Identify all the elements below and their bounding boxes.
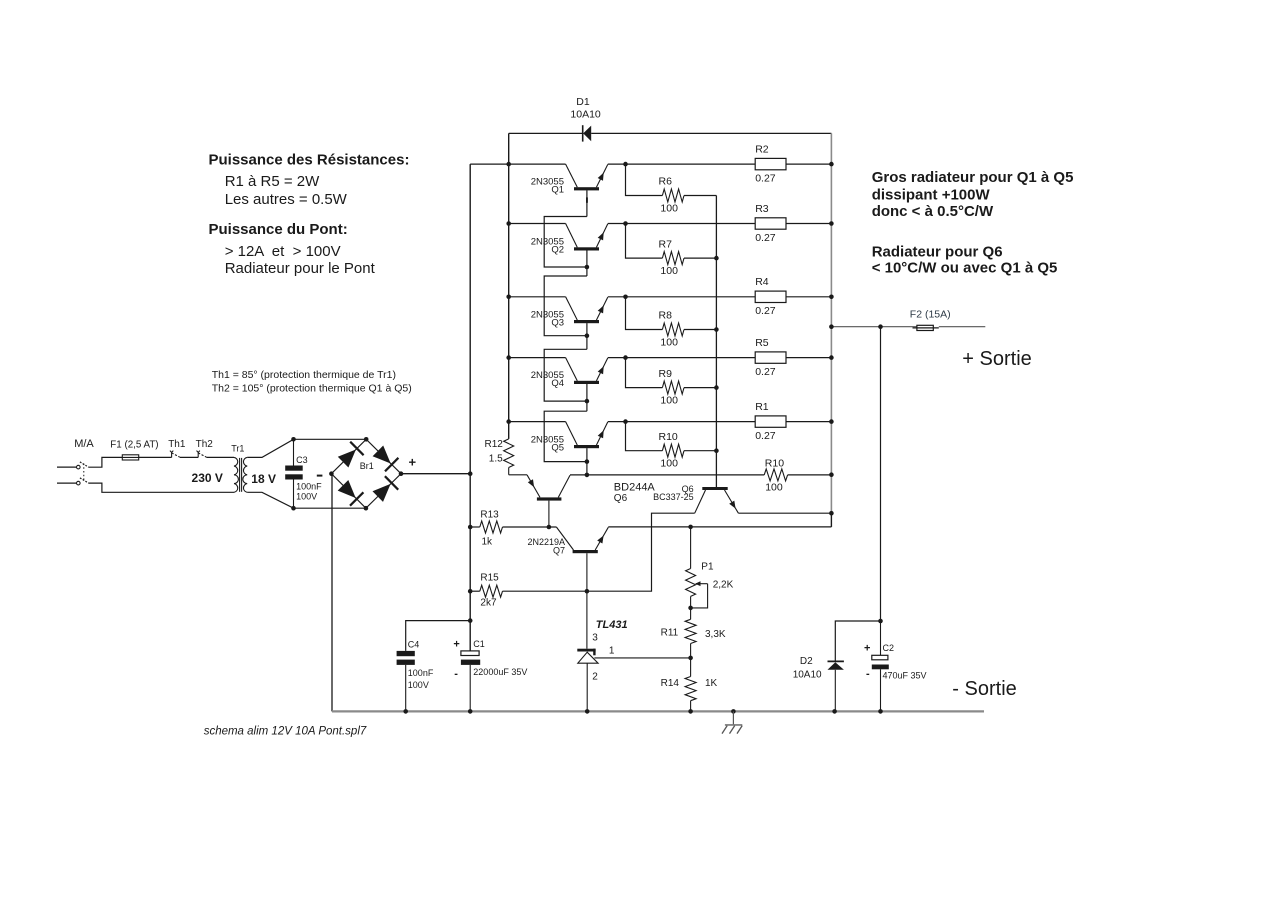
junction Q5 base / driver line <box>585 473 590 478</box>
wire: R15 to Q7 base <box>503 590 587 592</box>
junction rail / R14 <box>688 709 693 714</box>
resistor R10 100 <box>659 431 685 470</box>
capacitor C2 470uF 35V <box>864 621 927 711</box>
wire: Th1 to Th2 <box>180 456 198 458</box>
switch M/A <box>57 438 94 485</box>
junction P1 wiper tie <box>688 606 693 611</box>
svg-text:100: 100 <box>660 203 678 215</box>
wire: emitter row to resistor R5 <box>626 357 756 359</box>
svg-text:BC337-25: BC337-25 <box>653 492 694 502</box>
svg-text:100V: 100V <box>296 491 317 501</box>
wire: primary bottom return to switch <box>88 483 234 492</box>
label bridge minus <box>317 475 323 477</box>
junction output bus row Q1 <box>829 162 834 167</box>
junction C2 top tee <box>878 619 883 624</box>
svg-text:C3: C3 <box>296 455 308 465</box>
junction output bus / BC337 emitter <box>829 511 834 516</box>
resistor R9 100 <box>659 368 685 407</box>
thermal switch Th2 <box>196 439 214 458</box>
svg-text:-: - <box>866 668 870 680</box>
junction output line / C2 branch <box>878 324 883 329</box>
wire: Q4 emitter to base resistor R9 <box>626 358 663 388</box>
junction raw/R13 <box>468 525 473 530</box>
wire: bridge minus to 0V rail <box>331 474 333 712</box>
svg-text:18 V: 18 V <box>251 472 276 486</box>
wire: Q2 emitter to base resistor R7 <box>626 224 663 259</box>
ground <box>722 711 742 733</box>
svg-text:Les autres = 0.5W: Les autres = 0.5W <box>225 191 348 208</box>
wire: Q3 emitter to base resistor R8 <box>626 297 663 330</box>
svg-text:+: + <box>409 455 417 470</box>
resistor R15 2k7 <box>480 573 503 609</box>
svg-text:Q3: Q3 <box>551 317 564 328</box>
svg-text:schema alim 12V 10A Pont.spl7: schema alim 12V 10A Pont.spl7 <box>204 726 367 738</box>
fuse F1 <box>110 440 158 461</box>
wire: Q6 collector / Q5 base line to R10 <box>570 474 764 476</box>
resistor R8 100 <box>659 310 685 349</box>
resistor R1 0.27 <box>755 401 786 442</box>
svg-text:100nF: 100nF <box>408 668 434 678</box>
wire: Q4 base to Q5 base <box>544 384 587 462</box>
wire: raw tee to C4 <box>406 621 471 651</box>
junction sense bus at R10 <box>714 448 719 453</box>
junction collector bus y=297 <box>506 295 511 300</box>
junction Q2 emitter node <box>623 221 628 226</box>
junction Q7 base / R15 / BC337 <box>585 589 590 594</box>
junction Q4 emitter node <box>623 355 628 360</box>
resistor R10 100 (driver) <box>764 457 787 493</box>
svg-text:C4: C4 <box>408 640 420 650</box>
svg-text:1K: 1K <box>705 678 718 689</box>
junction bridge AC top <box>364 437 369 442</box>
junction Q5 base <box>585 459 590 464</box>
svg-text:R14: R14 <box>661 678 680 689</box>
svg-text:M/A: M/A <box>74 438 94 450</box>
wire: Q1 emitter to base resistor R6 <box>626 164 663 195</box>
svg-text:dissipant +100W: dissipant +100W <box>872 187 991 204</box>
junction raw/R15 <box>468 589 473 594</box>
resistor R12 1.5 <box>485 439 514 468</box>
svg-text:100: 100 <box>660 337 678 349</box>
svg-text:3,3K: 3,3K <box>705 629 726 640</box>
wire: secondary bottom to AC node <box>247 492 366 508</box>
svg-text:100: 100 <box>660 265 678 277</box>
svg-text:+: + <box>453 638 459 650</box>
wire: BC337 emitter to output bus <box>738 512 831 514</box>
wire: BC337 collector to Q7 base <box>587 513 695 591</box>
svg-text:+: + <box>864 642 870 654</box>
resistor R11 3,3K <box>661 619 726 643</box>
svg-text:R7: R7 <box>659 238 673 250</box>
svg-text:100: 100 <box>660 458 678 470</box>
wire: Q1 base to Q2 base <box>544 190 587 267</box>
wire: output bus (gray) <box>830 133 832 513</box>
svg-text:R4: R4 <box>755 276 769 288</box>
svg-text:P1: P1 <box>701 561 714 572</box>
svg-text:R12: R12 <box>485 439 504 450</box>
svg-text:2: 2 <box>592 672 598 683</box>
svg-text:Th2 = 105° (protection thermiq: Th2 = 105° (protection thermique Q1 à Q5… <box>212 382 412 394</box>
junction sense bus at R9 <box>714 385 719 390</box>
svg-text:22000uF 35V: 22000uF 35V <box>473 667 527 677</box>
wire: R10 to sense bus <box>684 450 716 452</box>
svg-text:470uF 35V: 470uF 35V <box>883 670 927 680</box>
wire: R8 to sense bus <box>684 329 716 331</box>
transistor Q6 BD244A <box>509 468 656 528</box>
wire: R3 to output bus <box>786 223 831 225</box>
wire: F2 to + Sortie <box>939 326 986 328</box>
svg-text:Radiateur pour le Pont: Radiateur pour le Pont <box>225 260 376 277</box>
svg-text:10A10: 10A10 <box>793 670 822 681</box>
wire: Q5 emitter to base resistor R10 <box>626 422 663 451</box>
junction C3 bottom <box>291 506 296 511</box>
svg-text:C1: C1 <box>473 639 485 649</box>
svg-text:Q4: Q4 <box>551 378 564 389</box>
wire: Q5 base to driver line <box>586 448 588 475</box>
svg-text:100: 100 <box>765 481 783 493</box>
svg-text:1.5: 1.5 <box>489 454 503 465</box>
junction rail / D2 <box>832 709 837 714</box>
svg-text:F2 (15A): F2 (15A) <box>910 308 951 320</box>
wire: R11 to R14 <box>690 644 692 677</box>
wire: emitter row to resistor R3 <box>626 223 756 225</box>
wire: 0V rail (gray) <box>332 710 984 712</box>
junction output bus row Q3 <box>829 295 834 300</box>
svg-text:Q1: Q1 <box>551 185 564 196</box>
wire: output bus to F2 <box>831 326 917 328</box>
svg-text:C2: C2 <box>883 643 895 653</box>
capacitor C3 <box>285 439 322 508</box>
svg-text:> 12A et > 100V: > 12A et > 100V <box>225 243 341 260</box>
svg-text:R13: R13 <box>480 510 499 521</box>
resistor R2 0.27 <box>755 144 786 185</box>
junction sense bus at R7 <box>714 256 719 261</box>
potentiometer P1 2,2K <box>686 527 734 619</box>
wire: Q2 base to Q3 base <box>544 250 587 335</box>
junction output bus row Q4 <box>829 355 834 360</box>
junction raw/C4 tee <box>468 618 473 623</box>
svg-text:D1: D1 <box>576 96 590 108</box>
wire: tee to D2 <box>835 621 880 661</box>
svg-text:100: 100 <box>660 395 678 407</box>
svg-text:2,2K: 2,2K <box>713 579 734 590</box>
wire: raw to R15 <box>470 590 480 592</box>
svg-text:Th2: Th2 <box>196 439 214 450</box>
junction rail / C4 <box>403 709 408 714</box>
svg-text:Q2: Q2 <box>551 245 564 256</box>
transistor Q3 2N3055 <box>509 297 626 329</box>
bridge rectifier Br1 <box>331 439 401 508</box>
svg-text:10A10: 10A10 <box>570 109 601 121</box>
wire: R13 to Q7 collector <box>503 526 557 528</box>
svg-text:Puissance des Résistances:: Puissance des Résistances: <box>209 152 410 169</box>
svg-text:Radiateur pour Q6: Radiateur pour Q6 <box>872 243 1003 260</box>
svg-text:R8: R8 <box>659 310 673 322</box>
svg-text:1: 1 <box>609 646 615 657</box>
transformer Tr1 <box>192 444 276 493</box>
wire: Q7 emitter row <box>608 526 831 528</box>
junction sense bus at R8 <box>714 327 719 332</box>
junction bridge minus node <box>329 471 334 476</box>
transistor Q7 2N2219A <box>527 527 608 649</box>
transistor Q1 2N3055 <box>509 164 626 196</box>
wire: Th2 to transformer primary <box>206 456 234 458</box>
junction output bus row Q2 <box>829 221 834 226</box>
junction output bus row Q5 <box>829 419 834 424</box>
wire: emitter row to resistor R2 <box>626 163 756 165</box>
junction collector bus y=224 <box>506 221 511 226</box>
diode D1 10A10 <box>570 96 831 142</box>
resistor R7 100 <box>659 238 685 277</box>
junction bridge plus node <box>399 471 404 476</box>
svg-text:Puissance du Pont:: Puissance du Pont: <box>209 221 348 238</box>
wire: output down to C2/D2 <box>880 327 882 621</box>
svg-text:R3: R3 <box>755 203 769 215</box>
resistor R13 1k <box>480 510 503 548</box>
svg-text:Th1: Th1 <box>168 439 186 450</box>
wire: F1 to Th1 <box>139 456 172 458</box>
svg-text:Br1: Br1 <box>360 461 374 471</box>
transistor Q4 2N3055 <box>509 358 626 390</box>
resistor R6 100 <box>659 176 685 215</box>
fuse F2 (15A) <box>910 308 951 330</box>
wire: phase from switch to fuse F1 <box>88 457 122 467</box>
wire: R7 to sense bus <box>684 257 716 259</box>
svg-text:R9: R9 <box>659 368 673 380</box>
wire: raw to R13 <box>470 526 480 528</box>
svg-text:F1 (2,5 AT): F1 (2,5 AT) <box>110 440 158 451</box>
wire: emitter row to resistor R4 <box>626 296 756 298</box>
note: Puissance des Resistances block <box>209 152 410 278</box>
junction output bus / R10 <box>829 472 834 477</box>
thermal switch Th1 <box>168 439 186 458</box>
junction rail / ground stub <box>731 709 736 714</box>
svg-text:R1 à R5 = 2W: R1 à R5 = 2W <box>225 173 320 190</box>
junction Q3 emitter node <box>623 295 628 300</box>
wire: R1 to output bus <box>786 421 831 423</box>
svg-text:0.27: 0.27 <box>755 232 776 244</box>
svg-text:BD244A: BD244A <box>614 481 656 493</box>
svg-text:R1: R1 <box>755 401 769 413</box>
svg-text:Q6: Q6 <box>614 493 628 504</box>
wire: secondary top to AC node <box>247 439 366 457</box>
junction collector bus y=164 <box>506 162 511 167</box>
regulator TL431 <box>577 619 627 711</box>
svg-text:3: 3 <box>592 633 598 644</box>
svg-text:D2: D2 <box>800 656 813 667</box>
wire: R10 to output bus <box>788 474 832 476</box>
transistor Q2 2N3055 <box>509 224 626 256</box>
wire: emitter row to resistor R1 <box>626 421 756 423</box>
resistor R4 0.27 <box>755 276 786 317</box>
junction Q4 base <box>585 399 590 404</box>
junction rail / TL431 anode <box>585 709 590 714</box>
svg-text:0.27: 0.27 <box>755 430 776 442</box>
svg-text:R10: R10 <box>659 431 678 443</box>
svg-text:- Sortie: - Sortie <box>952 678 1016 700</box>
svg-text:1k: 1k <box>482 537 494 548</box>
svg-text:Q5: Q5 <box>551 442 564 453</box>
junction bridge AC bottom <box>364 506 369 511</box>
junction C3 top <box>291 437 296 442</box>
resistor R3 0.27 <box>755 203 786 244</box>
svg-text:+ Sortie: + Sortie <box>962 348 1031 370</box>
svg-text:-: - <box>454 668 458 680</box>
svg-text:Th1 = 85° (protection thermiqu: Th1 = 85° (protection thermique de Tr1) <box>212 369 396 381</box>
wire: R5 to output bus <box>786 357 831 359</box>
svg-text:Gros radiateur pour Q1 à Q5: Gros radiateur pour Q1 à Q5 <box>872 169 1074 186</box>
junction raw/bridge plus <box>468 471 473 476</box>
wire: TL431 ref to divider <box>594 657 690 659</box>
svg-text:100nF: 100nF <box>296 481 322 491</box>
svg-text:0.27: 0.27 <box>755 366 776 378</box>
junction rail / C2 <box>878 709 883 714</box>
wire: Q3 base to Q4 base <box>544 323 587 401</box>
svg-text:R10: R10 <box>765 457 784 469</box>
svg-text:R11: R11 <box>661 628 679 639</box>
transistor Q5 2N3055 <box>509 422 626 454</box>
svg-text:R6: R6 <box>659 176 673 188</box>
junction Q3 base <box>585 333 590 338</box>
junction collector bus y=422 <box>506 419 511 424</box>
svg-text:0.27: 0.27 <box>755 305 776 317</box>
note: Gros radiateur block <box>872 169 1074 277</box>
junction rail / C1 <box>468 709 473 714</box>
transistor Q6 BC337-25 <box>653 484 738 513</box>
junction output bus / output line <box>829 324 834 329</box>
junction Q6 BD244A base <box>547 525 552 530</box>
wire: R9 to sense bus <box>684 387 716 389</box>
junction Q2 base <box>585 265 590 270</box>
junction Q7 emitter / P1 <box>688 525 693 530</box>
resistor R5 0.27 <box>755 337 786 378</box>
wire: bridge plus to raw node <box>401 473 470 475</box>
capacitor C1 22000uF 35V <box>453 638 527 711</box>
wire: R14 to rail <box>690 701 692 712</box>
wire: raw supply vertical <box>470 164 509 651</box>
svg-text:Tr1: Tr1 <box>231 444 244 454</box>
svg-text:2k7: 2k7 <box>480 598 497 609</box>
svg-text:R2: R2 <box>755 144 769 156</box>
svg-text:< 10°C/W ou avec Q1 à Q5: < 10°C/W ou avec Q1 à Q5 <box>872 259 1058 276</box>
svg-text:R5: R5 <box>755 337 769 349</box>
svg-text:R15: R15 <box>480 573 499 584</box>
wire: sense bus to Q6 BC337 base <box>715 196 717 488</box>
svg-text:0.27: 0.27 <box>755 172 776 184</box>
note: thermal protection note <box>212 369 412 395</box>
junction collector bus y=358 <box>506 355 511 360</box>
junction divider / TL431 ref <box>688 656 693 661</box>
svg-text:donc < à 0.5°C/W: donc < à 0.5°C/W <box>872 203 994 220</box>
junction Q5 emitter node <box>623 419 628 424</box>
diode D2 10A10 <box>793 656 844 711</box>
wire: R2 to output bus <box>786 163 831 165</box>
svg-text:100V: 100V <box>408 680 429 690</box>
wire: R6 to sense bus <box>684 195 716 197</box>
svg-text:TL431: TL431 <box>596 619 628 631</box>
junction Q1 emitter node <box>623 162 628 167</box>
wire: collector bus (raw +) <box>509 133 583 439</box>
blob on Q1 base lead <box>586 197 588 202</box>
capacitor C4 100nF <box>397 640 434 712</box>
wire: R4 to output bus <box>786 296 831 298</box>
resistor R14 1K <box>661 677 718 701</box>
svg-text:Q7: Q7 <box>553 545 565 555</box>
svg-text:230 V: 230 V <box>192 471 223 485</box>
wire: output bus stub to Q7 emitter row <box>830 513 832 527</box>
